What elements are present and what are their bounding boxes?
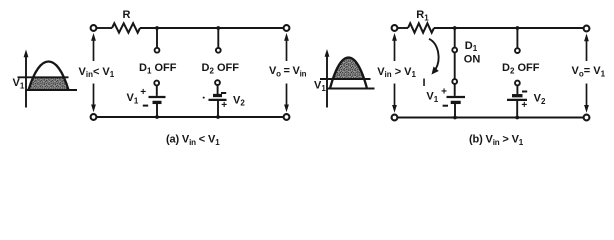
wire: D1 branch conducting (ON) [454, 28, 456, 96]
diode D1 upper terminal (open, OFF) [155, 48, 160, 53]
svg-text:+: + [441, 86, 447, 97]
battery V2 (b) positive plate [507, 99, 527, 101]
diode D2 upper terminal (open, OFF) [216, 48, 221, 53]
battery V1 (a) negative plate [153, 101, 162, 104]
wire: D1 anode stub (a) [156, 28, 158, 48]
wire: D1 terminal to battery V1 (a) [156, 86, 158, 96]
node: input terminal bottom (b) [392, 115, 398, 121]
diode D2 lower terminal (open, OFF) (b) [515, 81, 520, 86]
svg-text:V1: V1 [13, 77, 25, 90]
wire: D2 anode stub (a) [217, 28, 219, 48]
battery V2 (a) positive plate [209, 99, 227, 101]
svg-text:Vo= V1: Vo= V1 [572, 65, 606, 78]
svg-text:+: + [221, 100, 227, 111]
node: output terminal top (b) [584, 26, 590, 32]
svg-text:Vin< V1: Vin< V1 [79, 66, 115, 79]
junction: D2 branch / top rail (a) [216, 26, 220, 30]
battery V1 (a) positive plate [149, 96, 166, 98]
waveform (b) sine hump outline [330, 58, 367, 89]
wire: battery V1 to bottom rail (a) [156, 104, 158, 117]
junction: D1 branch / top rail (b) [453, 26, 457, 30]
svg-text:I: I [423, 77, 426, 89]
waveform (a) vertical axis [25, 54, 27, 108]
wire: D2 anode stub (b) [516, 28, 518, 48]
wire: bottom rail (a) [97, 116, 284, 118]
wire: battery V2 to bottom rail (b) [516, 101, 518, 118]
battery V2 (a) minus polarity mark [221, 92, 226, 94]
node: output terminal bottom (a) [284, 114, 290, 120]
junction: D2 branch / top rail (b) [516, 26, 520, 30]
input voltage up arrow (a) [93, 40, 95, 62]
svg-text:+: + [521, 100, 527, 111]
diode D2 upper terminal (open, OFF) (b) [515, 48, 520, 53]
junction: V1 branch / bottom rail (b) [453, 116, 457, 120]
svg-text:D1 OFF: D1 OFF [139, 62, 177, 75]
svg-text:(a) Vin < V1: (a) Vin < V1 [166, 134, 220, 147]
output voltage up arrow (b) [586, 40, 588, 61]
battery V2 (b) minus polarity mark [522, 91, 527, 93]
waveform (a) baseline [26, 89, 78, 91]
output voltage down arrow (b) [586, 84, 588, 106]
input voltage up arrow (b) [394, 40, 396, 62]
waveform (b) baseline [327, 87, 375, 89]
svg-text:D1: D1 [465, 40, 478, 53]
wire: top rail (b) right segment [434, 27, 584, 29]
waveform (b) vertical axis [326, 54, 328, 108]
input voltage down arrow (a) [93, 84, 95, 106]
waveform (b) V1 clip level line [320, 78, 371, 80]
diode D1 lower terminal (b) [452, 79, 457, 84]
waveform (b) shaded region (clipped portion above V1) [330, 58, 367, 89]
node: input terminal top (a) [91, 25, 97, 31]
battery V1 (b) negative plate [451, 101, 461, 104]
waveform (a) axis arrowhead [24, 50, 29, 58]
diode D1 upper terminal (b) [452, 48, 457, 53]
battery V1 (a) minus polarity mark [143, 105, 148, 107]
wire: top rail (b) left segment [398, 27, 409, 29]
battery V1 (b) positive plate [447, 96, 466, 98]
svg-text:ON: ON [464, 53, 481, 65]
svg-text:V1: V1 [314, 80, 326, 93]
waveform (a) shaded region (clipped portion below V1) [29, 62, 69, 91]
junction: V2 branch / bottom rail (b) [515, 116, 519, 120]
svg-text:D2 OFF: D2 OFF [502, 62, 540, 75]
input voltage down arrow (b) [394, 84, 396, 106]
junction: V2 branch / bottom rail (a) [216, 115, 220, 119]
resistor R [112, 23, 140, 32]
wire: bottom rail (b) [398, 117, 584, 119]
battery V2 (b) negative plate [512, 94, 523, 97]
svg-text:R1: R1 [416, 9, 429, 22]
waveform (a) V1 clip level line [18, 76, 69, 78]
wire: battery V1 to bottom rail (b) [454, 104, 456, 118]
svg-text:V1: V1 [426, 91, 438, 104]
diode D2 lower terminal (open, OFF) [215, 80, 220, 85]
waveform (b) axis arrowhead [325, 49, 330, 57]
wire: top rail (a) left segment [97, 27, 113, 29]
svg-text:Vin > V1: Vin > V1 [377, 66, 416, 79]
resistor R1 [408, 23, 434, 32]
junction: D1 branch / top rail (a) [155, 26, 159, 30]
node: input terminal bottom (a) [91, 114, 97, 120]
battery V2 (a) negative plate [213, 94, 222, 97]
input waveform icon (b): shaded area above V1 level [320, 49, 375, 108]
battery V1 (b) minus polarity mark [443, 105, 448, 107]
output voltage down arrow (a) [286, 84, 288, 106]
wire: battery V2 to bottom rail (a) [217, 101, 219, 117]
junction: V1 branch / bottom rail (a) [155, 115, 159, 119]
waveform (a) sine hump outline [29, 62, 69, 91]
svg-text:R: R [123, 9, 131, 21]
stray print dot left of battery V2 (a) [203, 97, 205, 99]
svg-text:V2: V2 [534, 93, 546, 106]
wire: top rail (a) right segment [140, 27, 284, 29]
svg-text:(b) Vin > V1: (b) Vin > V1 [469, 134, 524, 147]
svg-text:D2 OFF: D2 OFF [202, 62, 240, 75]
svg-text:V2: V2 [233, 94, 245, 107]
svg-text:V1: V1 [127, 92, 139, 105]
node: input terminal top (b) [392, 25, 398, 31]
svg-text:Vo = Vin: Vo = Vin [269, 65, 307, 78]
svg-text:+: + [140, 87, 146, 98]
wire: D2 terminal to battery V2 (a) [217, 85, 219, 94]
current I arc arrow (b) [429, 39, 439, 70]
output voltage up arrow (a) [286, 40, 288, 62]
wire: D2 terminal to battery V2 (b) [516, 86, 518, 95]
input waveform icon (a): shaded area below V1 level [18, 50, 78, 108]
node: output terminal bottom (b) [584, 115, 590, 121]
diode D1 lower terminal (open, OFF) [154, 81, 159, 86]
node: output terminal top (a) [284, 25, 290, 31]
